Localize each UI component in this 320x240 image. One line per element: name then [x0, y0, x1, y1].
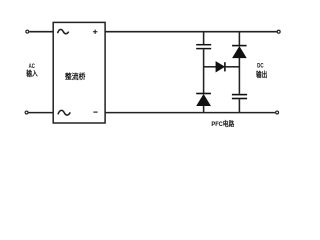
- wire D3 anode: [204, 66, 216, 68]
- wire branch2 lower: [238, 99, 240, 112]
- terminal (AC input bottom): [25, 111, 28, 114]
- wire D3 cathode: [225, 66, 240, 68]
- svg-text:PFC电路: PFC电路: [211, 119, 234, 128]
- diode D3 (horizontal, cathode right): [216, 62, 225, 72]
- terminal (AC input top): [26, 30, 29, 33]
- terminal (DC output -): [276, 111, 279, 114]
- svg-text:整流桥: 整流桥: [64, 72, 86, 81]
- svg-text:DC: DC: [257, 62, 264, 69]
- wire branch1 lower: [203, 106, 205, 113]
- capacitor C2: [232, 95, 247, 99]
- diode D2 (to lower rail, cathode up): [196, 94, 211, 106]
- diode D1 (cathode up): [232, 46, 247, 58]
- capacitor C1: [196, 45, 211, 49]
- wire branch2 upper: [238, 32, 240, 46]
- wire branch2 middle: [238, 58, 240, 94]
- pin label -: [93, 111, 97, 113]
- wire branch1 upper: [203, 32, 205, 44]
- wire: [29, 112, 54, 114]
- wire bottom rail: [105, 112, 275, 114]
- ac symbol bottom: [58, 110, 70, 115]
- rectifier bridge U1 box: [53, 22, 105, 123]
- terminal (DC output +): [277, 30, 280, 33]
- wire: [29, 31, 53, 33]
- svg-text:输出: 输出: [256, 70, 267, 79]
- wire branch1 middle: [203, 49, 205, 93]
- pin label +: [93, 30, 98, 34]
- ac symbol top: [58, 30, 69, 34]
- wire top rail: [105, 31, 277, 33]
- svg-text:输入: 输入: [26, 69, 38, 78]
